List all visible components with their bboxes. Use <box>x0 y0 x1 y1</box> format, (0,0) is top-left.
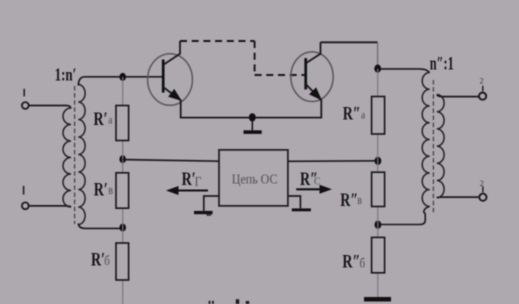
resistor R''b <box>372 237 385 272</box>
wire: common emitter line <box>181 100 322 118</box>
node: emitter junction <box>249 113 256 121</box>
node: left OS tap junction <box>119 155 126 163</box>
wire: right rail node to T2 primary top <box>381 69 430 73</box>
transistor Q2 <box>291 42 333 101</box>
svg-text:R″: R″ <box>340 189 358 210</box>
ground (box right) <box>288 196 311 211</box>
svg-text:б: б <box>104 253 110 268</box>
svg-text:Г: Г <box>195 174 202 189</box>
resistor R''v <box>372 172 385 206</box>
svg-text:в: в <box>357 194 362 207</box>
wire: box to right tap <box>288 160 378 163</box>
wire: T2 secondary top to terminal 2 <box>437 95 479 97</box>
wire: secondary top to base of Q1 <box>78 77 163 86</box>
wire: left tap to box <box>123 160 219 162</box>
svg-text:в: в <box>108 184 113 197</box>
wire: top-left lead into primary <box>29 106 71 109</box>
transformer T1 primary winding <box>63 108 71 207</box>
resistor R'a <box>116 106 129 141</box>
node: right rail top <box>374 65 381 73</box>
wire: bottom-left lead into primary <box>29 206 71 207</box>
node: right OS tap <box>375 157 382 165</box>
svg-text:1:n′: 1:n′ <box>55 66 77 85</box>
svg-text:Цепь ОС: Цепь ОС <box>232 172 278 187</box>
caption remnant (cropped figure caption) <box>209 299 250 304</box>
feedback box (Cep OS) <box>219 150 288 206</box>
arrow R'G (left, pointing left) <box>166 186 208 195</box>
wire: right divider rail segments <box>377 69 379 297</box>
wire: Q1 collector dashed cross-coupling <box>180 41 306 75</box>
terminal 1 (bottom-left input) <box>22 186 29 209</box>
ground (right rail bottom) <box>364 297 391 302</box>
svg-text:2: 2 <box>480 77 484 86</box>
wire: T2 primary bottom to right tap <box>381 206 430 224</box>
resistor R''a <box>372 97 385 135</box>
svg-text:а: а <box>108 113 112 126</box>
wire: drop to right rail top node <box>377 42 379 66</box>
svg-text:R″: R″ <box>342 251 360 272</box>
wire: Q2 collector to right rail <box>321 41 378 43</box>
terminal 2 (bottom-right output) <box>479 179 486 201</box>
node: base rail junction <box>119 73 126 81</box>
wire: left divider rail segments <box>122 77 124 304</box>
wire: secondary bottom tap to divider <box>78 224 123 229</box>
transformer T1 secondary winding <box>78 85 85 225</box>
svg-text:R″: R″ <box>343 103 361 124</box>
ground (emitter) <box>244 121 262 134</box>
svg-text:R′: R′ <box>182 168 196 189</box>
svg-text:2: 2 <box>480 179 484 188</box>
svg-text:С: С <box>314 176 321 188</box>
svg-text:R′: R′ <box>94 179 108 200</box>
svg-text:а: а <box>361 109 365 122</box>
terminal 2 (top-right output) <box>479 77 486 100</box>
arrow R''C (right, pointing right) <box>296 185 332 194</box>
svg-text:б: б <box>360 256 366 271</box>
svg-text:n″:1: n″:1 <box>430 54 454 74</box>
ground (box left) <box>194 196 219 216</box>
transformer T2 secondary winding <box>437 95 444 198</box>
node: right lower tap <box>375 221 382 229</box>
transformer T1 core <box>74 86 76 224</box>
svg-text:R′: R′ <box>94 108 108 129</box>
transformer T2 primary winding <box>422 73 430 207</box>
resistor R'v <box>116 173 129 208</box>
resistor R'b <box>116 243 129 280</box>
transformer T2 core <box>432 80 434 213</box>
wire: T2 secondary bottom to terminal 2 <box>437 196 479 199</box>
transistor Q1 <box>148 41 193 105</box>
node: left lower tap junction <box>119 224 126 232</box>
svg-text:R′: R′ <box>91 248 105 269</box>
terminal 1 (top-left input) <box>22 89 29 109</box>
